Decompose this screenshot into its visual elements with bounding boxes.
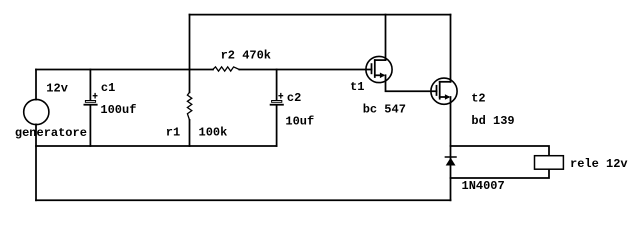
diode D1 cathode bar <box>445 156 456 158</box>
svg-text:t1: t1 <box>350 80 364 94</box>
diode D1 triangle <box>446 158 456 166</box>
transistor Q1 t1 base bar <box>371 64 373 73</box>
transistor Q2 t2 channel bar <box>439 82 441 99</box>
wire relay bottom <box>451 170 550 178</box>
svg-text:100uf: 100uf <box>100 103 136 117</box>
wire c1 top <box>89 70 91 101</box>
generator G1 circle <box>24 99 49 124</box>
transistor Q1 t1 emitter link <box>375 74 383 76</box>
relay K1 coil box <box>535 156 564 170</box>
svg-text:r1: r1 <box>166 126 180 140</box>
capacitor C1 polarity plus <box>93 93 98 99</box>
svg-text:100k: 100k <box>199 126 228 140</box>
wire t2 collector to top rail <box>450 15 452 82</box>
wire c2 bottom <box>276 106 278 146</box>
svg-text:bc 547: bc 547 <box>363 102 406 116</box>
capacitor C2 top plate <box>272 101 282 103</box>
transistor Q2 t2 emitter link <box>440 96 448 98</box>
wire t1 emitter to t2 base <box>386 75 437 91</box>
wire bottom rail <box>36 199 451 201</box>
wire r1 top <box>189 70 191 93</box>
resistor R2 zigzag <box>213 67 240 71</box>
wire t1 collector to top rail <box>385 15 387 61</box>
wire top rail <box>190 14 451 16</box>
wire t2 emitter down <box>450 97 452 200</box>
transistor Q1 t1 channel bar <box>374 60 376 77</box>
wire main bus right of r2 to t1 base <box>239 69 371 71</box>
svg-text:1N4007: 1N4007 <box>462 179 505 193</box>
transistor Q1 t1 emitter arrow <box>380 73 385 79</box>
capacitor C1 top plate <box>85 101 95 103</box>
svg-text:10uf: 10uf <box>285 114 314 128</box>
transistor Q2 t2 circle <box>431 78 457 104</box>
svg-text:12v: 12v <box>46 82 68 96</box>
wire generator bottom <box>35 124 37 200</box>
svg-text:t2: t2 <box>471 92 485 106</box>
transistor Q2 t2 emitter arrow <box>445 94 450 100</box>
wire top-left vertical <box>189 15 191 70</box>
wire middle rail <box>36 145 277 147</box>
svg-text:c1: c1 <box>101 81 115 95</box>
capacitor C2 polarity plus <box>278 93 283 99</box>
svg-text:c2: c2 <box>287 91 301 105</box>
wire r1 bottom <box>189 120 191 146</box>
svg-text:generatore: generatore <box>15 126 87 140</box>
transistor Q1 t1 circle <box>366 56 392 82</box>
svg-text:bd 139: bd 139 <box>471 114 514 128</box>
transistor Q2 t2 base bar <box>436 86 438 95</box>
wire relay top <box>451 146 550 155</box>
capacitor C2 bottom plate <box>271 104 283 106</box>
transistor Q1 t1 collector link <box>375 59 386 61</box>
resistor R1 zigzag <box>187 92 191 120</box>
wire c2 top <box>276 70 278 101</box>
wire c1 bottom <box>89 106 91 146</box>
svg-text:rele 12v: rele 12v <box>570 157 628 171</box>
wire generator top <box>35 70 37 100</box>
wire main bus left of r2 <box>36 69 213 71</box>
svg-text:r2 470k: r2 470k <box>221 49 271 63</box>
capacitor C1 bottom plate <box>84 104 96 106</box>
transistor Q2 t2 collector link <box>440 81 451 83</box>
